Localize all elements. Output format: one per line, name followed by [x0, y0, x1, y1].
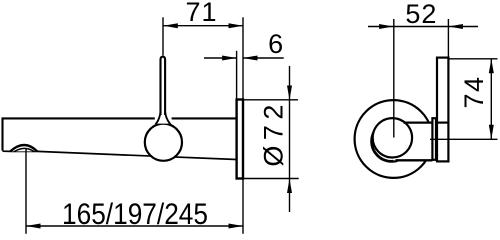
svg-text:6: 6: [268, 29, 283, 59]
svg-text:165/197/245: 165/197/245: [62, 198, 208, 231]
svg-text:71: 71: [185, 0, 217, 27]
svg-text:74: 74: [459, 75, 489, 108]
svg-text:52: 52: [405, 0, 437, 29]
svg-text:Ø72: Ø72: [258, 105, 288, 167]
